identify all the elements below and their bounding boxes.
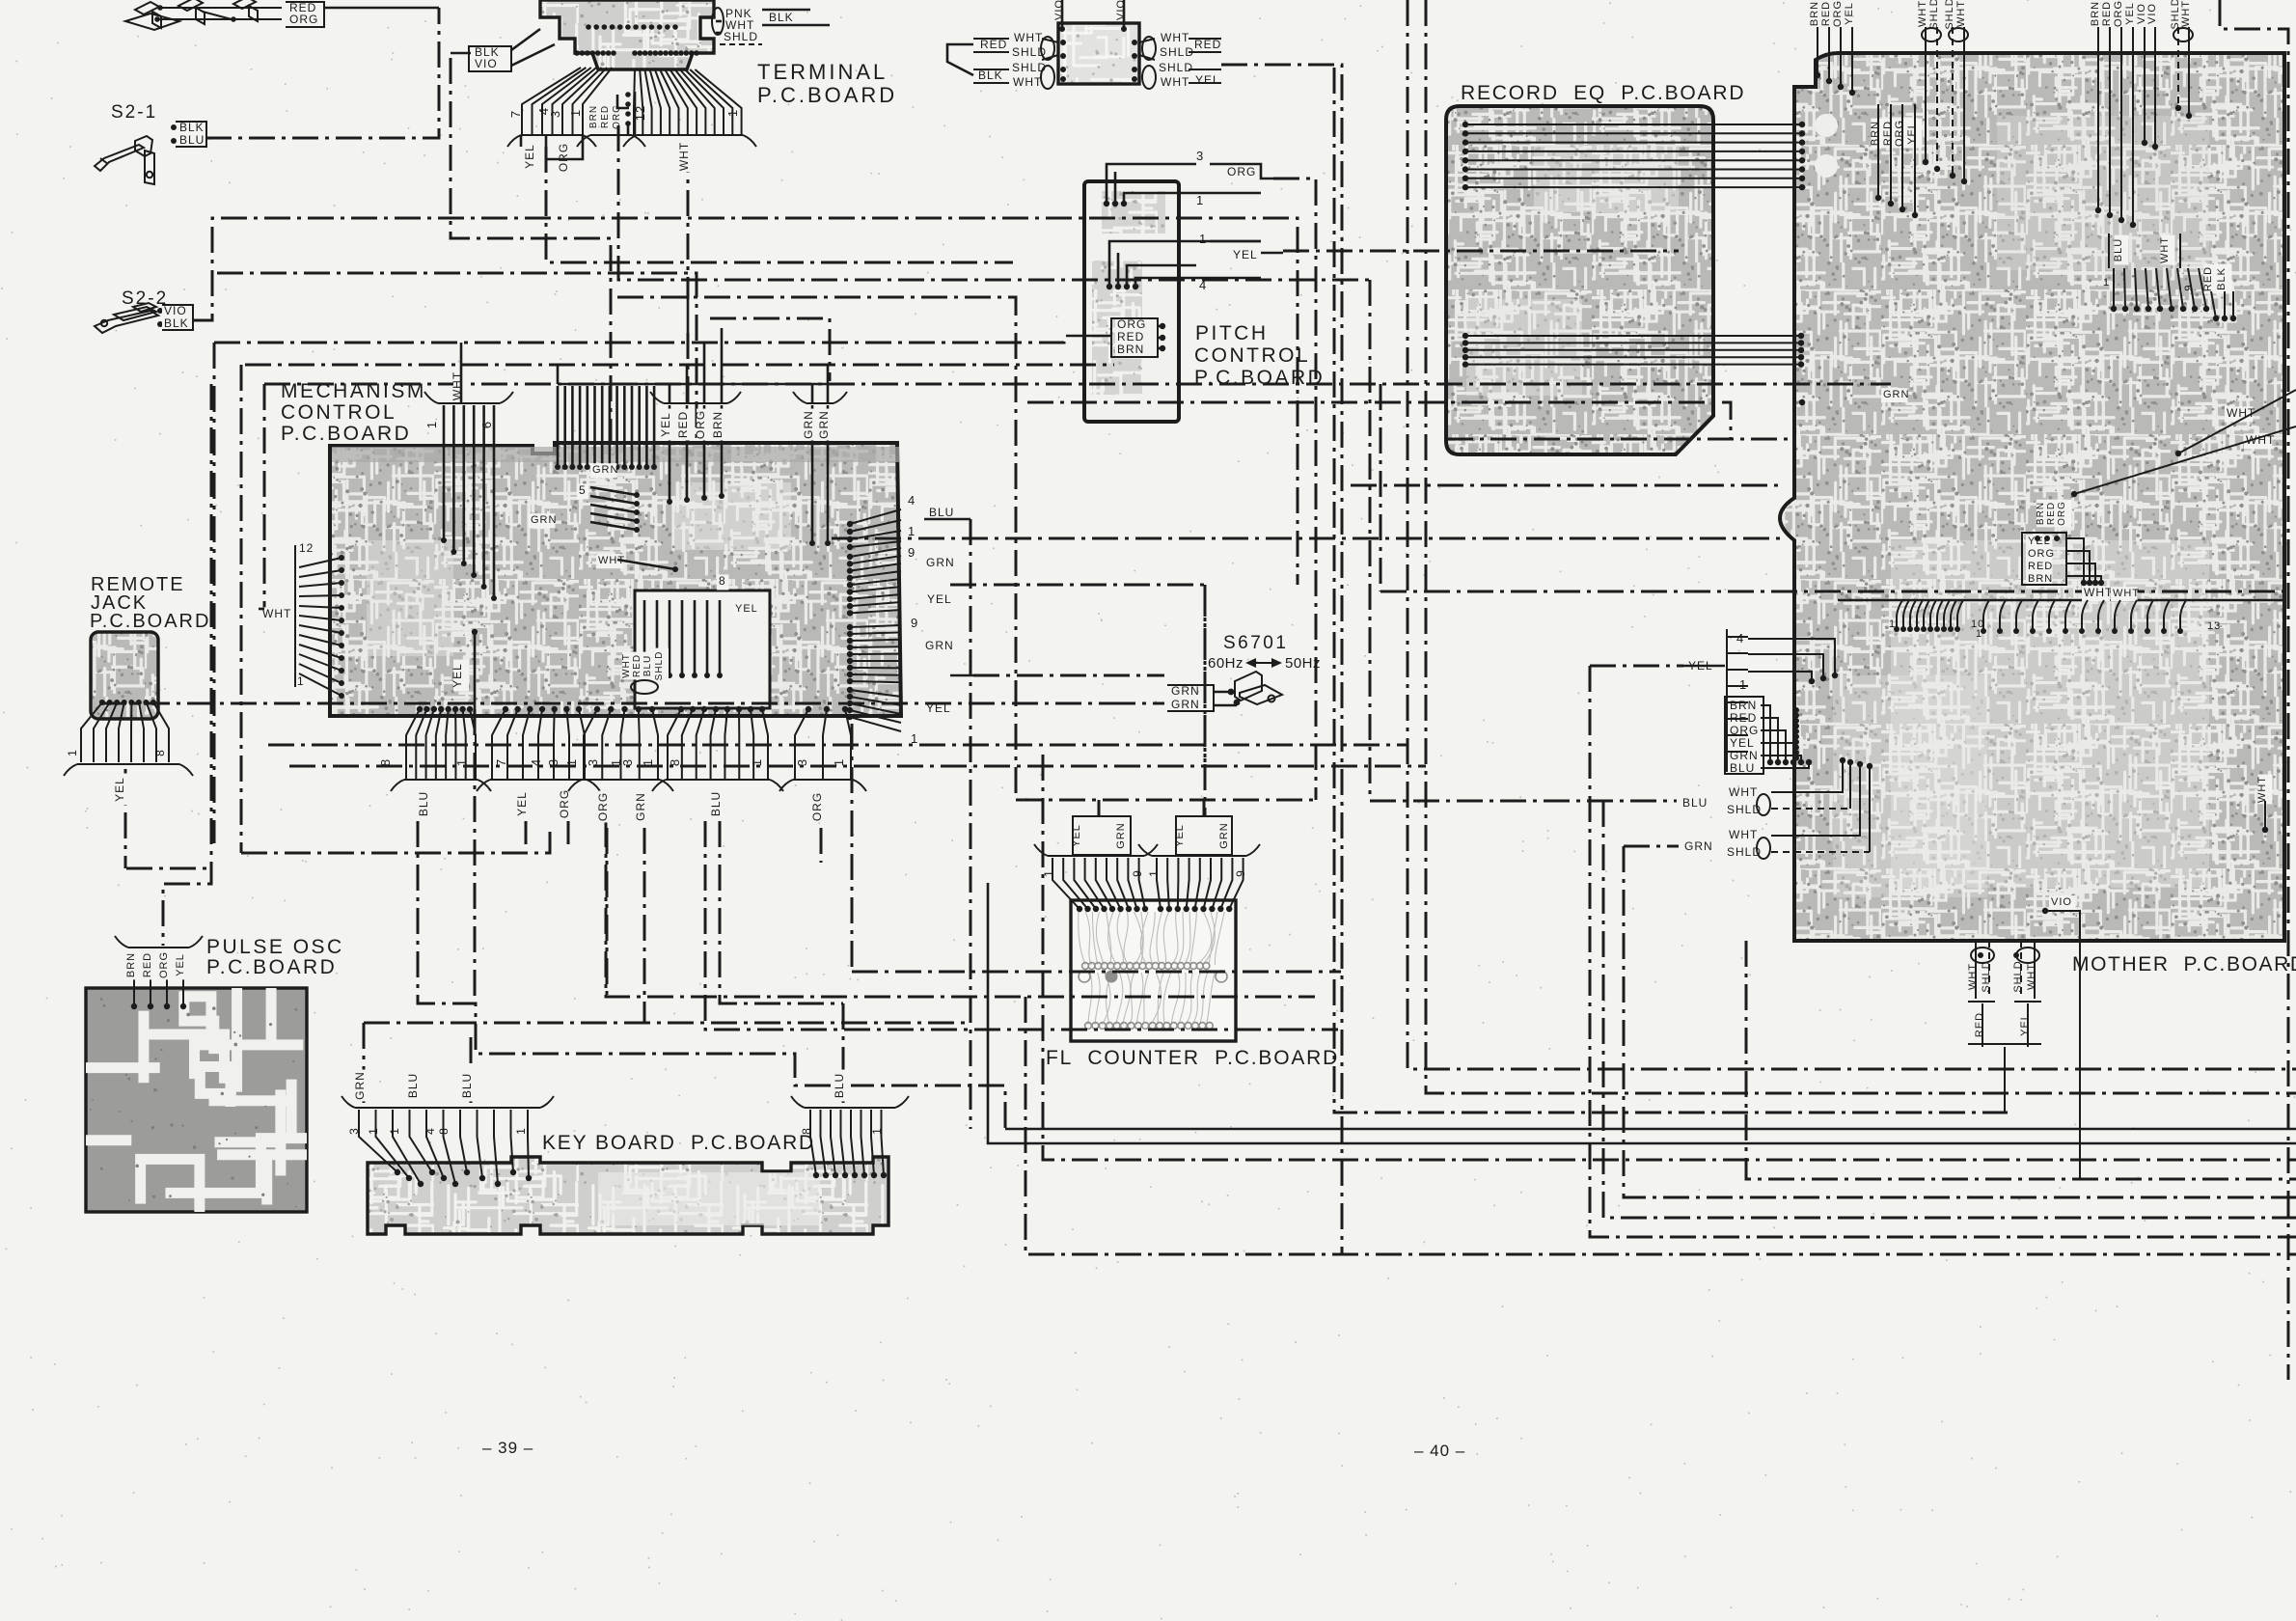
svg-text:ORG: ORG [289,13,318,26]
record eq pcb RECORD EQ P.C.BOARD [1446,106,1713,454]
svg-text:– 39 –: – 39 – [482,1439,533,1457]
svg-text:FL COUNTER P.C.BOARD: FL COUNTER P.C.BOARD [1046,1047,1339,1069]
mother left conn lower BLU/GRN [1681,796,1708,811]
vio wire below [2079,941,2081,1179]
svg-text:1: 1 [1042,869,1055,877]
mother top group2 WHT SHLD [1925,27,1927,162]
svg-text:YEL: YEL [1233,248,1258,261]
svg-text:GRN: GRN [1883,389,1909,400]
pitch connector top [1104,201,1109,206]
band y1033 [606,821,1315,997]
wire head right YEL [1221,65,1342,1254]
wire v1249 lower [1204,585,1207,762]
svg-text:S2-2: S2-2 [122,288,168,309]
mother YEL ORG RED BRN box [2026,535,2052,549]
mother WHT vertical right [2258,775,2273,805]
svg-text:RED: RED [600,105,611,128]
svg-text:BRN: BRN [711,411,724,438]
svg-text:RED: RED [1730,711,1757,725]
svg-text:BRN: BRN [2090,1,2101,26]
fl counter pcb FL COUNTER P.C.BOARD [1071,900,1236,1041]
svg-text:9: 9 [908,545,916,560]
svg-text:ORG: ORG [158,951,170,978]
record eq out wires top [1465,124,1802,125]
svg-text:WHT: WHT [262,607,291,620]
svg-text:GRN: GRN [1218,822,1230,848]
svg-text:WHT: WHT [1729,828,1758,841]
svg-text:YEL: YEL [523,144,536,169]
svg-text:PULSE OSC: PULSE OSC [206,936,344,958]
pitch control pcb PITCH CONTROL P.C.BOARD [1084,181,1179,447]
svg-text:YEL: YEL [1844,2,1855,25]
svg-text:ORG: ORG [1730,724,1759,737]
mother WHT diagonals right [2225,406,2253,422]
fl fans [1052,858,1080,909]
mother left conn upper [1727,629,1748,772]
svg-text:BRN: BRN [1870,121,1881,146]
mech inside labels [590,463,616,478]
mother inside BRN RED ORG YEL box [1872,119,1886,149]
svg-text:1: 1 [1889,618,1896,630]
keyboard left fan [359,1110,397,1172]
svg-text:GRN: GRN [592,464,618,476]
wire pitch YEL run [1283,250,1679,253]
svg-text:1: 1 [424,421,439,428]
svg-text:ORG: ORG [1832,0,1844,27]
mother top group3 SHLD WHT [1952,27,1954,176]
mech right fans [850,509,901,524]
run y417 [1027,402,1731,439]
pulse osc feed [163,384,211,946]
svg-text:BLU: BLU [1682,796,1708,810]
svg-text:1: 1 [870,1127,884,1135]
svg-text:YEL: YEL [113,777,126,802]
svg-text:RED: RED [142,952,153,977]
svg-text:RED: RED [676,411,690,438]
svg-text:WHT: WHT [621,653,632,678]
svg-text:ORG: ORG [2057,501,2067,526]
svg-text:GRN: GRN [634,792,647,821]
svg-text:ORG: ORG [1117,317,1146,331]
svg-text:MOTHER P.C.BOARD: MOTHER P.C.BOARD [2072,953,2296,975]
wire GRN keyboard left [363,1023,366,1103]
pulse osc top wires [133,950,135,1006]
svg-text:3: 3 [620,758,635,766]
wire nest 283 [217,273,697,443]
svg-text:S2-1: S2-1 [111,102,157,123]
svg-text:BLU: BLU [179,133,205,147]
svg-text:YEL: YEL [1071,824,1082,847]
wire GRN mother-left [1624,845,1679,848]
run y613 [1380,591,2284,593]
svg-text:RED: RED [1974,1012,1985,1037]
svg-text:1: 1 [454,758,469,766]
svg-text:GRN: GRN [1730,749,1759,762]
svg-text:BLU: BLU [709,791,723,816]
svg-text:ORG: ORG [694,410,707,439]
svg-text:12: 12 [299,541,314,555]
svg-text:YEL: YEL [1195,73,1220,87]
svg-text:5: 5 [579,483,587,497]
svg-text:WHT: WHT [2113,588,2140,599]
svg-text:YEL: YEL [175,953,186,976]
svg-text:RED: RED [1820,1,1832,26]
svg-text:BLU: BLU [417,791,430,816]
svg-text:1: 1 [1739,677,1747,692]
BLK VIO labels top [473,45,501,61]
mech top YEL RED ORG BRN [669,405,671,502]
svg-text:4: 4 [424,1127,437,1135]
right edge vertical [2220,0,2288,1380]
svg-text:RECORD EQ P.C.BOARD: RECORD EQ P.C.BOARD [1461,82,1745,104]
svg-text:BLK: BLK [2216,267,2228,290]
svg-text:8: 8 [668,758,682,766]
run y1185 solid [988,883,2296,1143]
wire RED/ORG top-left [324,7,439,10]
svg-text:60Hz: 60Hz [1208,655,1244,672]
svg-text:WHT: WHT [2256,776,2268,803]
run y558 [832,537,1780,540]
fl counter boxes [1073,816,1131,855]
svg-text:8: 8 [800,1127,813,1135]
svg-text:S6701: S6701 [1223,633,1288,653]
svg-text:SHLD: SHLD [1944,0,1955,30]
band y1007 [852,971,1341,974]
svg-text:SHLD: SHLD [654,651,665,681]
svg-text:WHT: WHT [1955,0,1967,27]
svg-text:YEL: YEL [1906,122,1918,145]
svg-text:1: 1 [1147,869,1161,877]
pitch connector bottom ORG RED BRN [1115,317,1143,333]
svg-text:WHT: WHT [2180,0,2192,27]
svg-text:ORG: ORG [1894,120,1905,147]
run y1170 solid [1005,1128,2296,1131]
wire nest 330 [710,318,830,381]
mother comb 10 [1837,599,1840,602]
svg-text:BLK: BLK [179,121,205,134]
svg-text:YEL: YEL [515,791,529,816]
top-left mechanism assembly [125,0,282,30]
svg-text:BLU: BLU [1730,761,1755,775]
wire YEL mother-left [1590,665,1683,668]
svg-text:RED: RED [1882,121,1894,146]
svg-text:BLK: BLK [769,11,794,24]
svg-text:8: 8 [437,1127,451,1135]
svg-text:1: 1 [725,109,740,117]
svg-text:YEL: YEL [1730,736,1755,750]
svg-text:WHT: WHT [677,142,691,171]
terminal fan right [634,69,635,135]
svg-text:1: 1 [641,758,655,766]
svg-text:ORG: ORG [810,792,824,821]
svg-text:ORG: ORG [1227,165,1256,179]
svg-text:YEL: YEL [926,701,951,715]
svg-text:1: 1 [2103,277,2110,288]
long run y378 [240,365,243,853]
mother top labels group1 BRN RED ORG YEL [1817,27,1818,75]
svg-text:WHT: WHT [1967,963,1979,990]
svg-text:RED: RED [1117,330,1144,343]
wire BLU keyboard right [842,1003,845,1103]
svg-text:1: 1 [514,1127,528,1135]
terminal pcb TERMINAL P.C.BOARD [540,0,714,69]
svg-text:3: 3 [795,758,809,766]
wire terminal drops [546,147,1013,262]
svg-text:1: 1 [1196,193,1204,207]
mech inner box comb [643,600,646,675]
mother BRN RED ORG small v [2036,500,2050,528]
svg-text:VIO: VIO [2146,3,2158,24]
long run y355 [213,343,216,843]
svg-text:1: 1 [564,758,579,766]
keyboard right fan [810,1110,816,1175]
vertical x1249 S6701 [950,585,1205,816]
svg-text:SHLD: SHLD [1159,61,1193,74]
svg-text:ORG: ORG [612,104,622,129]
band y794 [289,765,1426,768]
wire GRN long to S6701 lower [1109,702,1164,705]
svg-text:4: 4 [529,758,543,766]
svg-text:1: 1 [908,524,916,538]
svg-text:BLU: BLU [929,506,954,519]
remote YEL wire [124,769,127,868]
svg-text:BLU: BLU [642,655,653,676]
svg-text:RED: RED [1194,38,1221,51]
mother comb 13 [1983,600,1989,629]
mech bottom YEL single [453,660,469,692]
svg-text:ORG: ORG [2113,0,2124,27]
svg-text:9: 9 [2183,284,2195,290]
svg-text:7: 7 [508,110,523,118]
svg-text:BRN: BRN [2028,573,2053,585]
svg-text:3: 3 [347,1127,361,1135]
svg-text:BRN: BRN [1809,1,1820,26]
svg-text:9: 9 [1131,869,1144,877]
svg-text:BRN: BRN [125,952,137,977]
wire nest 308 [617,297,1016,800]
svg-text:9: 9 [1234,869,1247,877]
svg-text:SHLD: SHLD [1928,0,1940,30]
svg-text:8: 8 [378,758,393,766]
svg-text:GRN: GRN [925,639,954,652]
mother BLU WHT labels mid [2115,235,2129,265]
svg-text:BLK: BLK [164,316,189,330]
svg-text:YEL: YEL [1174,824,1186,847]
svg-text:8: 8 [153,749,167,756]
pitch connector mid [1107,284,1112,289]
svg-text:WHT: WHT [1014,31,1043,44]
svg-text:WHT: WHT [2159,236,2171,263]
svg-text:YEL: YEL [2124,2,2136,25]
svg-text:4: 4 [908,493,916,508]
svg-text:GRN: GRN [1115,822,1127,848]
svg-text:1: 1 [1199,232,1207,246]
svg-text:P.C.BOARD: P.C.BOARD [206,956,337,978]
svg-text:GRN: GRN [1171,684,1200,698]
band y884 [241,828,550,853]
svg-text:GRN: GRN [1171,698,1200,711]
svg-text:BLU: BLU [406,1073,420,1098]
svg-text:GRN: GRN [1684,839,1713,853]
svg-text:YEL: YEL [735,603,758,615]
run y455 [1447,438,1792,441]
comb bus y395 [558,383,830,386]
mech top GRN GRN [811,405,814,543]
svg-text:VIO: VIO [2051,896,2072,908]
svg-text:BLU: BLU [2113,238,2124,261]
svg-text:– 40 –: – 40 – [1414,1442,1465,1460]
wire BLU keyboard mid [470,1037,473,1103]
band y1067 [705,821,1338,1030]
svg-text:BLU: BLU [833,1073,846,1098]
svg-text:50Hz: 50Hz [1285,655,1321,672]
long run y398 [263,384,266,609]
FL left verticals [970,519,972,1129]
mother VIO label bottom [2049,895,2075,910]
head connector pcb [1058,23,1139,84]
svg-text:BRN: BRN [1117,343,1144,356]
wire head left [947,44,973,75]
band y900 remote YEL tie [126,867,211,870]
remote jack fan [99,700,105,705]
svg-text:PITCH: PITCH [1195,322,1269,344]
svg-text:1: 1 [297,674,305,688]
svg-text:GRN: GRN [353,1071,367,1100]
run y1222 [1746,941,2296,1179]
svg-text:1: 1 [388,1127,401,1135]
svg-text:12: 12 [633,105,647,121]
svg-text:GRN: GRN [531,514,557,526]
svg-text:P.C.BOARD: P.C.BOARD [281,423,411,445]
svg-text:GRN: GRN [817,410,831,439]
svg-text:YEL: YEL [927,592,952,606]
svg-text:WHT: WHT [1917,0,1928,27]
svg-text:YEL: YEL [659,412,672,437]
svg-text:WHT: WHT [1729,785,1758,799]
svg-text:WHT: WHT [2026,963,2037,990]
svg-text:6: 6 [479,421,494,428]
svg-text:VIO: VIO [475,57,498,70]
run y1153 [1334,68,2008,1113]
svg-text:SHLD: SHLD [2012,960,2024,992]
mechanism control pcb MECHANISM CONTROL P.C.BOARD [330,443,901,716]
run y1133 [1426,0,2296,1093]
svg-text:ORG: ORG [558,789,571,818]
svg-text:CONTROL: CONTROL [1194,344,1310,367]
svg-text:1: 1 [750,758,764,766]
mother pcb MOTHER P.C.BOARD [1780,53,2284,941]
svg-text:RED: RED [2202,266,2214,291]
FL feeds [1098,800,1101,816]
wire BLU mother-left [1370,800,1677,803]
svg-text:4: 4 [1736,631,1744,646]
wire S2-2 route [193,218,1298,585]
svg-text:1: 1 [1976,628,1982,640]
mother dots at left edge [1799,399,1805,405]
svg-text:ORG: ORG [557,143,570,172]
svg-text:1: 1 [832,758,846,766]
svg-text:WHT: WHT [1013,75,1042,89]
svg-text:9: 9 [911,616,918,630]
wire pitch ORG run [1273,179,1316,800]
mech bottom fans [417,706,423,712]
wire GRN to S6701 [973,674,1164,677]
mech left fan 12 [299,558,342,567]
terminal mid wires [617,95,629,108]
wire BLU keyboard [418,821,1005,1129]
mother GRN label [1881,388,1907,402]
wire BLK/VIO route [451,52,471,55]
svg-text:SHLD: SHLD [1981,960,1992,992]
band y772 [268,744,1408,747]
svg-text:1: 1 [66,749,79,756]
svg-text:ORG: ORG [596,792,610,821]
svg-text:ORG: ORG [2028,548,2055,560]
svg-text:3: 3 [586,758,600,766]
svg-text:GRN: GRN [802,410,815,439]
svg-text:3: 3 [1196,149,1204,163]
svg-text:WHT: WHT [2084,586,2113,599]
mech top comb 1-6 [443,405,446,540]
svg-text:RED: RED [632,654,642,677]
svg-text:RED: RED [2028,561,2053,572]
svg-text:P.C.BOARD: P.C.BOARD [1194,367,1325,389]
svg-text:KEY BOARD P.C.BOARD: KEY BOARD P.C.BOARD [542,1132,815,1154]
svg-text:VIO: VIO [164,304,187,317]
run y503 [1351,484,1780,487]
svg-text:SHLD: SHLD [724,30,758,43]
svg-text:4: 4 [1199,278,1207,292]
svg-text:7: 7 [494,758,508,766]
mech top comb 14 [557,386,560,467]
svg-text:P.C.BOARD: P.C.BOARD [757,83,897,107]
svg-text:3: 3 [548,110,562,118]
svg-text:GRN: GRN [926,556,955,569]
run y622 WHT [1838,599,2284,602]
svg-text:RED: RED [980,38,1007,51]
svg-text:RED: RED [2046,502,2057,525]
svg-text:8: 8 [719,574,726,588]
run y1108 [1408,0,2296,1069]
svg-text:1: 1 [367,1127,380,1135]
svg-text:WHT: WHT [1161,31,1189,44]
svg-text:1: 1 [911,731,918,746]
svg-text:BLK: BLK [978,69,1003,82]
wire S2-1 to vertical [205,8,439,138]
key board pcb KEY BOARD P.C.BOARD [368,1157,888,1234]
svg-text:CONTROL: CONTROL [281,401,396,424]
svg-text:WHT: WHT [1161,75,1189,89]
svg-text:3: 3 [546,758,560,766]
svg-text:BRN: BRN [2036,502,2046,525]
svg-text:P.C.BOARD: P.C.BOARD [90,611,210,632]
svg-text:1: 1 [568,109,583,117]
record eq out wires lower [1465,335,1801,337]
svg-text:YEL: YEL [2019,1013,2031,1036]
svg-text:13: 13 [2207,620,2221,632]
svg-text:BRN: BRN [588,105,599,128]
svg-text:TERMINAL: TERMINAL [757,60,888,84]
remote jack pcb REMOTE JACK P.C.BOARD [91,632,158,719]
svg-text:YEL: YEL [451,663,464,688]
svg-text:BLU: BLU [460,1073,474,1098]
svg-text:BRN: BRN [1730,699,1757,712]
svg-text:RED: RED [2101,1,2113,26]
wire ORG drop [567,821,570,844]
terminal fan left [522,68,581,135]
